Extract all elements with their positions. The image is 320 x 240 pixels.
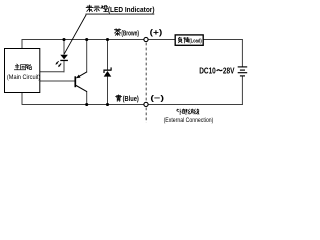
wire: LED anode drop from top rail xyxy=(63,40,65,56)
terminal node (+) brown wire xyxy=(144,37,148,41)
load box xyxy=(175,35,203,45)
label 青 xyxy=(116,95,122,101)
svg-text:(External Connection): (External Connection) xyxy=(164,117,214,124)
LED emission arrow 2 xyxy=(58,64,61,68)
svg-text:(Load): (Load) xyxy=(189,39,202,45)
transistor Q1 emitter diagonal with arrow xyxy=(76,72,87,78)
label DC10~28V xyxy=(199,66,235,75)
label 外部結線 xyxy=(177,109,199,115)
svg-text:(Blue): (Blue) xyxy=(123,96,139,103)
label 主回路 xyxy=(14,64,31,70)
LED emission arrow 1 xyxy=(56,61,59,65)
wire: diode cathode drop from top rail xyxy=(107,40,109,71)
terminal node (-) blue wire xyxy=(144,102,148,106)
wire: stub from main circuit box top to top rail xyxy=(21,39,23,49)
diode D1 (reverse protection) xyxy=(103,67,111,76)
main circuit box xyxy=(5,49,40,93)
wire: top rail load-to-corner segment xyxy=(203,39,243,41)
junction: diode cathode / top rail xyxy=(106,38,109,41)
battery symbol xyxy=(238,67,248,76)
svg-text:(LED Indicator): (LED Indicator) xyxy=(108,5,155,14)
wire: right side down to battery xyxy=(241,40,243,67)
svg-text:(−): (−) xyxy=(150,94,164,103)
wire: LED cathode down to node xyxy=(63,61,65,73)
wire: diode anode drop to bottom rail xyxy=(107,76,109,105)
wire: battery to bottom corner xyxy=(241,76,243,105)
wire: transistor collector vertical to bottom rail xyxy=(86,91,88,105)
transistor Q1 collector diagonal xyxy=(76,85,87,91)
svg-text:(Main Circuit): (Main Circuit) xyxy=(7,74,40,81)
leader line from LED Indicator label to LED xyxy=(64,15,86,54)
wire: top rail terminal-to-load segment xyxy=(148,39,175,41)
wire: base wire from main circuit box to transistor xyxy=(40,80,75,82)
dashed internal/external boundary line xyxy=(145,43,147,123)
LED indicator diode xyxy=(60,55,68,61)
wire: transistor emitter vertical to top rail xyxy=(86,40,88,73)
wire: bottom (-) rail right segment xyxy=(148,104,243,106)
transistor Q1 base bar xyxy=(74,76,76,87)
junction: diode anode / bottom rail xyxy=(106,103,109,106)
wire: bottom rail left segment xyxy=(22,104,144,106)
svg-text:28V: 28V xyxy=(223,66,235,75)
svg-text:(+): (+) xyxy=(150,28,163,37)
wire: top (+) rail left segment xyxy=(22,39,144,41)
label 茶 xyxy=(114,29,120,36)
label 負荷 xyxy=(178,37,189,43)
wire: stub from main circuit box bottom to bottom rail xyxy=(21,92,23,105)
junction: collector / bottom rail xyxy=(85,103,88,106)
svg-text:DC10: DC10 xyxy=(199,66,216,75)
wire: LED cathode to main circuit box xyxy=(40,71,65,73)
label 表示燈 xyxy=(86,5,107,12)
junction: emitter / top rail xyxy=(85,38,88,41)
label underline for 表示燈(LED Indicator) xyxy=(86,13,155,15)
junction: LED anode / top rail xyxy=(62,38,65,41)
svg-text:(Brown): (Brown) xyxy=(121,28,139,37)
